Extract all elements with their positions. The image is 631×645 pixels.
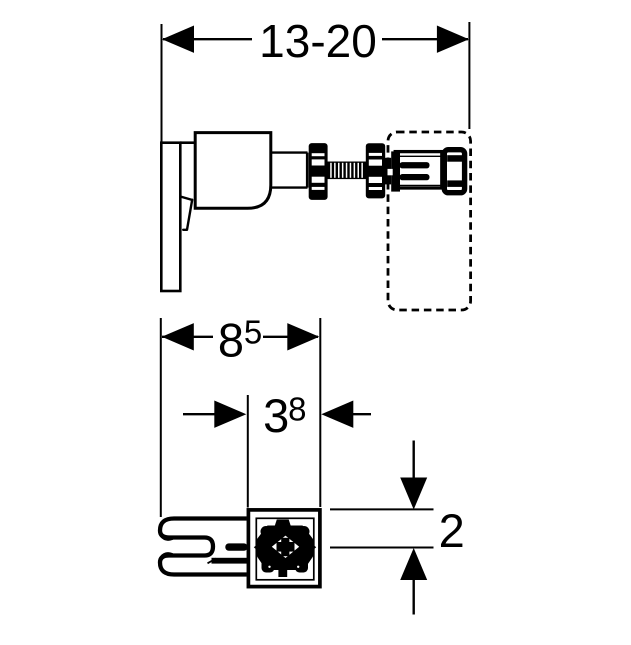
cap nut band upper xyxy=(447,155,462,162)
dimension 13-20 left extension line xyxy=(161,24,163,143)
knob black cross xyxy=(277,542,295,552)
fitting prong lower xyxy=(400,174,430,180)
fitting inner top line xyxy=(400,155,441,157)
connector stub xyxy=(385,158,391,185)
cylinder end cap line xyxy=(306,153,309,188)
wall plate top edge extension xyxy=(180,141,196,144)
cylinder bottom line xyxy=(271,186,308,188)
fitting inner bottom line xyxy=(400,184,441,186)
dimension 8-5 left extension line xyxy=(160,318,162,517)
dimension 8-5 right extension line xyxy=(319,318,321,507)
adjustment knob xyxy=(254,520,316,578)
svg-text:3: 3 xyxy=(263,389,289,442)
nut 2 body xyxy=(366,143,385,198)
fitting left tabs xyxy=(391,151,400,191)
dimension 3-8 left shaft xyxy=(183,413,224,415)
cylinder top line xyxy=(271,151,308,153)
dimension 8-5 left arrowhead xyxy=(162,323,194,350)
dimension 13-20 line left segment xyxy=(163,38,252,40)
svg-text:13-20: 13-20 xyxy=(259,15,377,67)
dashed fitting box xyxy=(388,132,471,310)
slide bar B wedge xyxy=(208,559,217,564)
dimension 2 lower extension line xyxy=(330,547,434,549)
square block inner frame xyxy=(256,518,314,580)
dimension 3-8 extension line xyxy=(247,395,249,508)
square block outer xyxy=(248,510,320,587)
svg-text:2: 2 xyxy=(439,504,465,557)
fork tip curl lower xyxy=(162,554,172,557)
dimension 3-8 left arrowhead xyxy=(214,401,246,428)
dimension 2 bottom arrow shaft xyxy=(413,562,415,615)
dimension 8-5 right arrowhead xyxy=(287,323,319,350)
thread stripes xyxy=(330,163,363,178)
fork clamp outline xyxy=(160,519,247,575)
knob white dots xyxy=(268,566,270,568)
fork tip curl upper xyxy=(162,536,172,539)
dimension 13-20 left arrowhead xyxy=(162,26,194,53)
dimension 3-8 right shaft xyxy=(350,413,371,415)
svg-text:8: 8 xyxy=(218,314,244,367)
dimension 8-5 line left segment xyxy=(162,336,213,338)
dimension 2 top arrow shaft xyxy=(413,441,415,496)
svg-text:5: 5 xyxy=(244,313,262,350)
threaded rod xyxy=(326,162,367,180)
bracket body xyxy=(195,133,271,209)
fitting tab notch xyxy=(388,169,393,175)
dimension 2 upper extension line xyxy=(330,508,434,510)
dimension 2 top arrowhead xyxy=(400,478,427,510)
slide bar A xyxy=(225,543,247,550)
knob white diamond xyxy=(272,536,299,558)
dimension 13-20 right arrowhead xyxy=(437,26,469,53)
slide bar B xyxy=(212,558,248,564)
nut 1 slots xyxy=(312,153,325,190)
cap nut band lower xyxy=(447,180,462,187)
wall plate xyxy=(161,143,180,291)
dimension 13-20 right extension line xyxy=(468,22,470,129)
dimension 2 bottom arrowhead xyxy=(400,548,427,580)
bracket tab diagonal and foot xyxy=(183,200,192,230)
fitting prong upper xyxy=(400,162,430,168)
fitting body xyxy=(395,152,442,188)
svg-text:8: 8 xyxy=(288,390,306,427)
bracket tab step xyxy=(180,197,192,200)
dimension 13-20 line right segment xyxy=(382,38,468,40)
dimension 8-5 line right segment xyxy=(263,336,318,338)
nut 2 slots xyxy=(369,153,382,190)
cap nut xyxy=(444,150,464,193)
dimension 3-8 right arrowhead xyxy=(321,401,353,428)
nut 1 body xyxy=(309,143,328,200)
